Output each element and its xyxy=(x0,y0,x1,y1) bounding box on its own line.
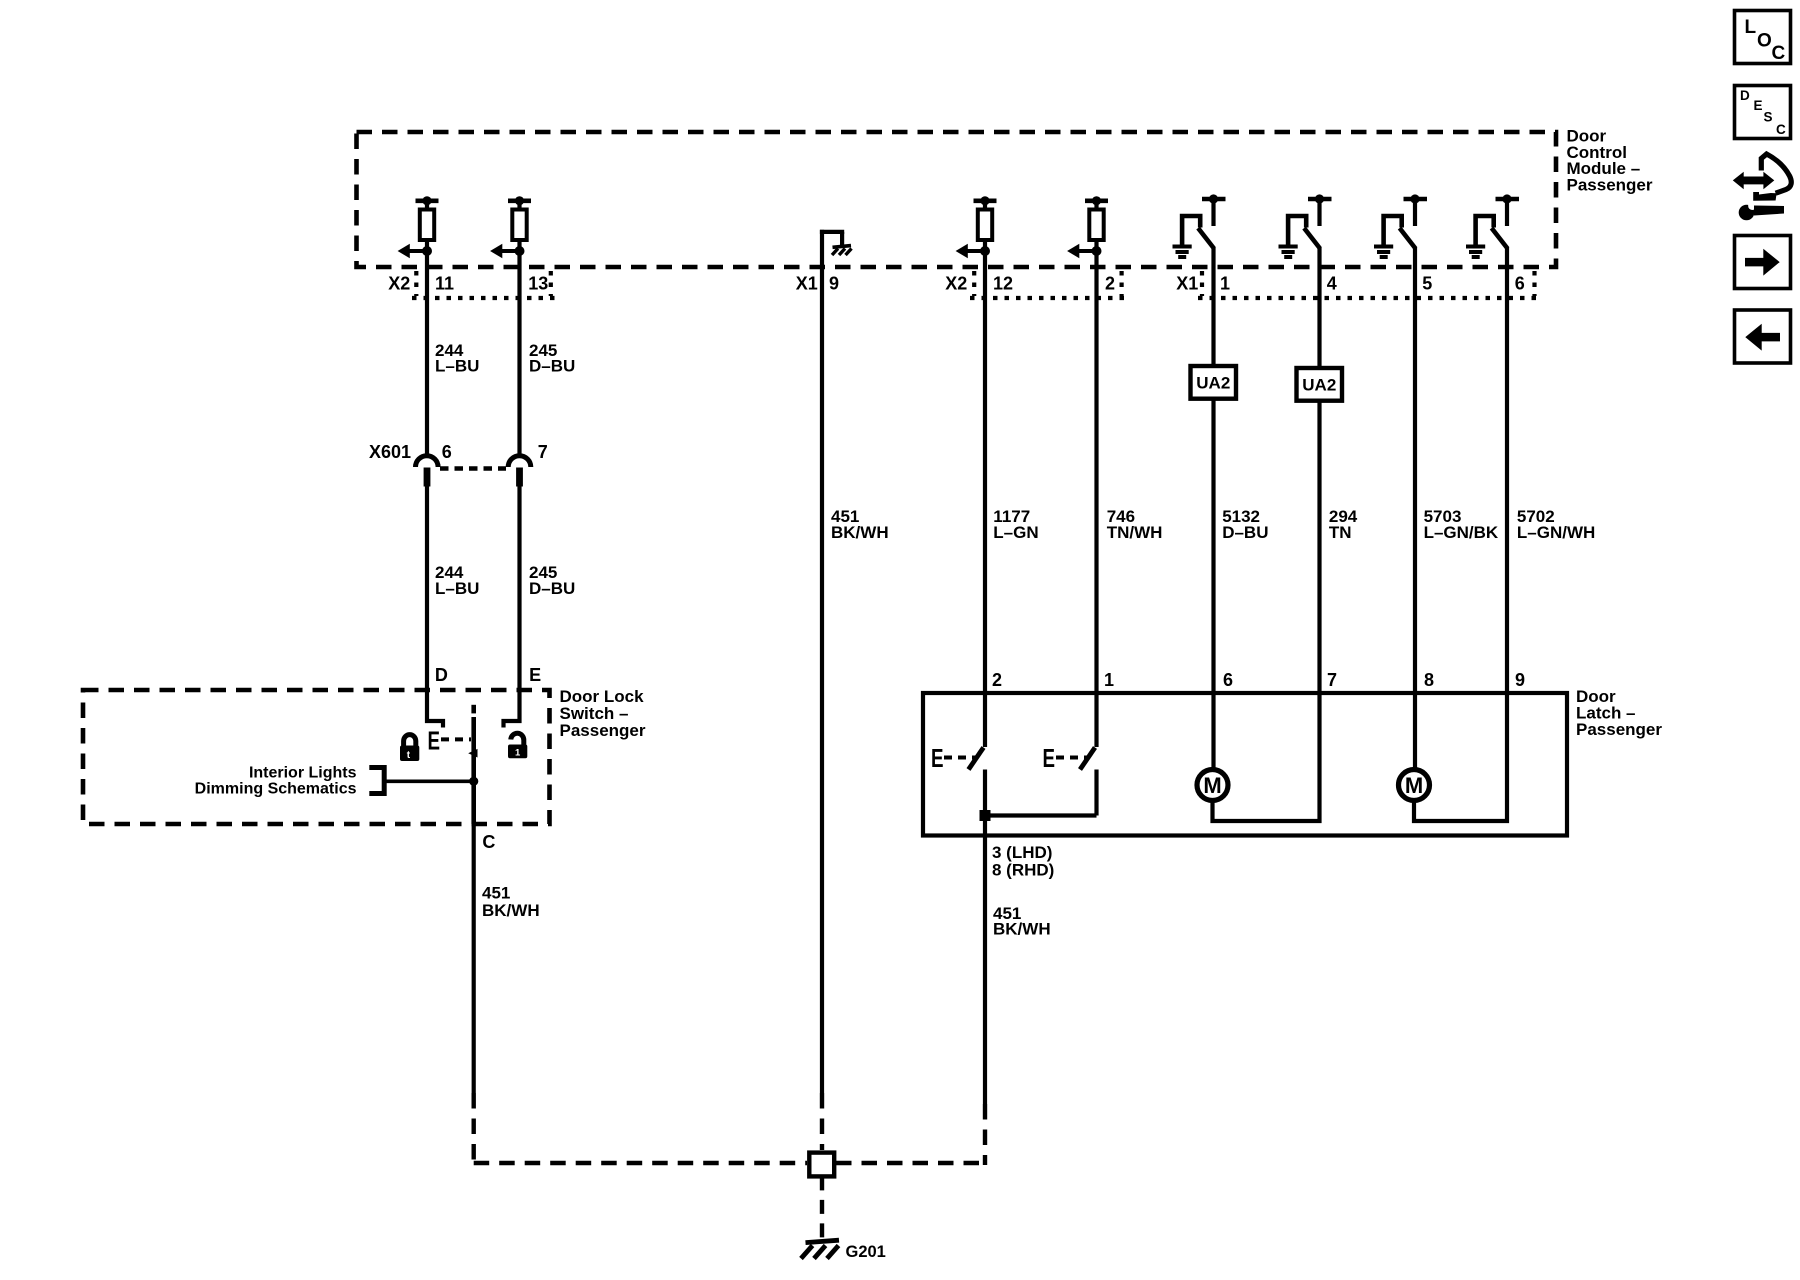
svg-text:D: D xyxy=(435,665,448,685)
label: pin 3 (LHD) / 8 (RHD) xyxy=(992,843,1054,880)
label: circuit 294 TN xyxy=(1329,507,1358,542)
svg-text:X2: X2 xyxy=(945,273,967,293)
label: circuit 451 BK/WH (right leg) xyxy=(993,904,1051,939)
svg-text:2: 2 xyxy=(992,670,1002,690)
label: circuit 451 BK/WH (center) xyxy=(831,507,889,542)
wire (dashed) splice run right xyxy=(836,1161,985,1165)
label: Door Lock Switch - Passenger xyxy=(560,687,646,740)
svg-text:BK/WH: BK/WH xyxy=(993,920,1051,939)
wire 451 BK/WH from X1-9 down xyxy=(820,267,824,1093)
wire (dashed) 451 left leg to splice xyxy=(472,1093,476,1161)
svg-text:L–GN/BK: L–GN/BK xyxy=(1424,523,1499,542)
label: Door Control Module - Passenger xyxy=(1567,127,1653,195)
connector X1 (pins 1,4,5,6) dotted box xyxy=(1198,271,1537,298)
svg-text:Switch –: Switch – xyxy=(560,704,629,723)
inline connector X601 pin 7 xyxy=(508,456,531,487)
svg-text:7: 7 xyxy=(538,442,548,462)
label: Interior Lights Dimming Schematics xyxy=(195,764,357,797)
svg-text:13: 13 xyxy=(528,273,548,293)
svg-text:TN/WH: TN/WH xyxy=(1107,523,1163,542)
label: circuit 245 D-BU (upper) xyxy=(529,341,575,376)
wire (dashed) 451 right leg to splice xyxy=(983,1104,987,1165)
svg-text:D–BU: D–BU xyxy=(1222,523,1268,542)
wire 451 BK/WH from latch pin 3/8 down xyxy=(983,836,987,1105)
wire 244 L-BU upper segment (X2-11 to X601-6) xyxy=(425,267,429,458)
svg-text:BK/WH: BK/WH xyxy=(831,523,889,542)
svg-text:M: M xyxy=(1405,773,1423,798)
svg-text:Passenger: Passenger xyxy=(1567,175,1653,194)
svg-text:2: 2 xyxy=(1105,273,1115,293)
label: circuit 5702 L-GN/WH xyxy=(1517,507,1595,542)
label: circuit 244 L-BU (upper) xyxy=(435,341,479,376)
label: circuit 244 L-BU (lower) xyxy=(435,563,479,598)
module driver R13 (resistor + output arrow, pin X2-13) xyxy=(490,196,531,267)
svg-text:4: 4 xyxy=(1327,273,1337,293)
svg-text:9: 9 xyxy=(1515,670,1525,690)
label: circuit 451 BK/WH (left leg) xyxy=(482,884,540,921)
svg-text:L–BU: L–BU xyxy=(435,357,479,376)
svg-text:Passenger: Passenger xyxy=(1576,720,1662,739)
module driver R2 (resistor + output arrow, pin X2-2) xyxy=(1067,196,1108,267)
wire 451 BK/WH from lock switch pin C down xyxy=(472,824,476,1093)
svg-text:X1: X1 xyxy=(796,273,818,293)
svg-text:Dimming Schematics: Dimming Schematics xyxy=(195,780,357,797)
module low-side switch SW-X1-1 (switch to ground) xyxy=(1173,194,1226,267)
svg-text:Interior Lights: Interior Lights xyxy=(249,764,357,781)
icon: DESC box xyxy=(1735,86,1791,139)
wire: D contact hook inside lock switch xyxy=(427,690,443,728)
icon: closed padlock (lock position) xyxy=(400,735,419,761)
module driver R11 (resistor + output arrow, pin X2-11) xyxy=(398,196,439,267)
svg-text:L–GN/WH: L–GN/WH xyxy=(1517,523,1595,542)
wire 5132 D-BU (X1-1 to latch pin 6) xyxy=(1211,267,1215,368)
latch lock switch SW2 (pin 1) xyxy=(1043,693,1097,816)
splice S1 (in-line splice box) xyxy=(809,1153,834,1177)
svg-text:6: 6 xyxy=(442,442,452,462)
svg-text:451: 451 xyxy=(482,884,510,903)
motor M2 (lock actuator, pins 8-9) xyxy=(1399,693,1508,821)
icon: harness navigation (double arrow, door outline, wrench) xyxy=(1733,154,1791,220)
svg-text:C: C xyxy=(1772,43,1786,64)
svg-text:Passenger: Passenger xyxy=(560,721,646,740)
wire: to interior lights dimming schematics xyxy=(385,779,474,783)
svg-text:L–BU: L–BU xyxy=(435,579,479,598)
dashed link between X601 halves xyxy=(440,466,506,471)
splice pack UA2 on wire 5132 xyxy=(1191,366,1237,399)
svg-text:UA2: UA2 xyxy=(1302,376,1336,395)
lock switch blade (common to pin C) xyxy=(468,705,477,824)
svg-text:E: E xyxy=(1043,743,1056,773)
wire: E contact hook inside lock switch xyxy=(504,690,520,728)
wire 294 TN (X1-4 to latch pin 7) xyxy=(1317,267,1321,370)
svg-text:12: 12 xyxy=(993,273,1013,293)
svg-text:1: 1 xyxy=(515,748,521,759)
svg-text:D: D xyxy=(1740,88,1750,103)
svg-text:9: 9 xyxy=(829,273,839,293)
svg-text:G201: G201 xyxy=(846,1243,886,1261)
svg-text:8 (RHD): 8 (RHD) xyxy=(992,860,1054,879)
wire 245 D-BU lower segment (X601-7 to lock switch E) xyxy=(517,487,521,691)
inline connector X601 pin 6 xyxy=(416,456,439,487)
wire 244 L-BU lower segment (X601-6 to lock switch D) xyxy=(425,487,429,691)
wire (dashed) splice run left xyxy=(474,1161,807,1165)
svg-text:11: 11 xyxy=(435,273,454,293)
svg-text:L–GN: L–GN xyxy=(993,523,1038,542)
door lock switch - passenger box S1 xyxy=(83,690,550,824)
svg-text:7: 7 xyxy=(1327,670,1337,690)
svg-text:6: 6 xyxy=(1223,670,1233,690)
icon: back arrow box xyxy=(1735,310,1791,363)
icon: open padlock (unlock position) xyxy=(508,733,527,758)
svg-text:M: M xyxy=(1203,773,1221,798)
svg-text:5: 5 xyxy=(1422,273,1432,293)
svg-text:E: E xyxy=(1754,98,1763,113)
svg-text:D–BU: D–BU xyxy=(529,357,575,376)
wire 5702 L-GN/WH (X1-6 to latch pin 9) xyxy=(1505,267,1509,693)
label: circuit 746 TN/WH xyxy=(1107,507,1163,542)
motor M1 (lock actuator, pins 6-7) xyxy=(1197,693,1320,821)
svg-text:L: L xyxy=(1745,17,1757,38)
svg-text:S: S xyxy=(1764,110,1773,125)
wire (dashed) 451 center leg to splice xyxy=(820,1093,824,1150)
node: junction of dimming feed on blade wire xyxy=(469,777,478,786)
svg-text:E: E xyxy=(428,726,441,756)
splice pack UA2 on wire 294 xyxy=(1297,368,1343,401)
module low-side switch SW-X1-4 (switch to ground) xyxy=(1279,194,1332,267)
svg-text:3 (LHD): 3 (LHD) xyxy=(992,843,1052,862)
svg-text:X1: X1 xyxy=(1176,273,1198,293)
latch lock switch SW1 (pin 2) xyxy=(931,693,985,816)
door control module - passenger box U1 xyxy=(357,132,1557,267)
svg-text:6: 6 xyxy=(1515,273,1525,293)
wire (dashed) splice to ground G201 xyxy=(820,1176,824,1241)
svg-text:E: E xyxy=(529,665,541,685)
off-page bracket: interior lights dimming xyxy=(369,768,384,794)
svg-text:C: C xyxy=(482,832,495,852)
svg-text:Door Lock: Door Lock xyxy=(560,687,645,706)
wire: latch common down to pin 3/8 xyxy=(983,816,987,835)
module driver R12 (resistor + output arrow, pin X2-12) xyxy=(956,196,997,267)
module internal ground (pin X1-9) xyxy=(820,230,852,267)
svg-text:E: E xyxy=(931,743,944,773)
connector X2 (pins 11,13) dotted box xyxy=(412,271,555,298)
svg-text:BK/WH: BK/WH xyxy=(482,901,540,920)
wire: latch switch commons joined xyxy=(985,813,1097,817)
icon: LOC box xyxy=(1735,11,1791,65)
wire 746 TN/WH (X2-2 to latch pin 1) xyxy=(1094,267,1098,693)
svg-text:1: 1 xyxy=(1220,273,1230,293)
connector X2 (pins 12,2) dotted box xyxy=(970,271,1124,298)
lock switch E actuator label and dashed link xyxy=(428,726,472,756)
svg-text:TN: TN xyxy=(1329,523,1352,542)
door latch - passenger box A1 xyxy=(923,693,1567,836)
label: circuit 1177 L-GN xyxy=(993,507,1038,542)
wire 245 D-BU upper segment (X2-13 to X601-7) xyxy=(517,267,521,458)
wire 1177 L-GN (X2-12 to latch pin 2) xyxy=(983,267,987,693)
module low-side switch SW-X1-6 (switch to ground) xyxy=(1466,194,1519,267)
svg-text:1: 1 xyxy=(1104,670,1114,690)
svg-text:8: 8 xyxy=(1424,670,1434,690)
svg-text:C: C xyxy=(1776,122,1786,137)
module low-side switch SW-X1-5 (switch to ground) xyxy=(1374,194,1427,267)
svg-text:X601: X601 xyxy=(369,442,411,462)
label: circuit 5132 D-BU xyxy=(1222,507,1268,542)
svg-text:UA2: UA2 xyxy=(1196,374,1230,393)
label: Door Latch - Passenger xyxy=(1576,687,1662,739)
label: circuit 5703 L-GN/BK xyxy=(1424,507,1499,542)
svg-text:D–BU: D–BU xyxy=(529,579,575,598)
svg-text:X2: X2 xyxy=(388,273,410,293)
wire 5703 L-GN/BK (X1-5 to latch pin 8) xyxy=(1413,267,1417,693)
ground G201 symbol xyxy=(801,1240,839,1258)
label: circuit 245 D-BU (lower) xyxy=(529,563,575,598)
svg-text:O: O xyxy=(1757,31,1772,52)
node: junction at latch common xyxy=(980,810,991,821)
icon: forward arrow box xyxy=(1735,236,1791,289)
